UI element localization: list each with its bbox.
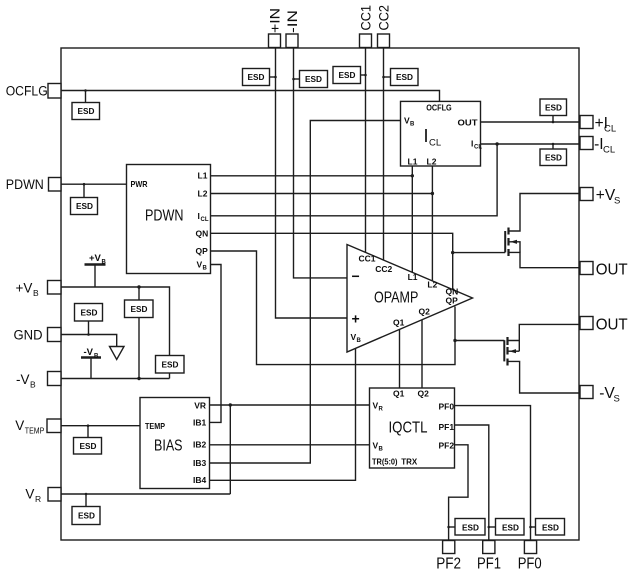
wire upper MOSFET body tie (509, 242, 521, 253)
wire +VB rail lower stub to ESD (169, 373, 171, 379)
junction QN gate (451, 251, 454, 254)
svg-text:CC1: CC1 (359, 253, 376, 263)
wire opamp VB net to BIAS IB4 (210, 348, 356, 480)
svg-text:Q2: Q2 (418, 388, 430, 398)
pin +ICL (580, 116, 593, 129)
pin OCFLG (48, 84, 61, 99)
svg-text:V: V (25, 487, 34, 502)
svg-text:-V: -V (16, 372, 30, 387)
ESD cell on PF1 (488, 519, 525, 536)
svg-text:IQCTL: IQCTL (389, 420, 428, 437)
wire -VB supply stem (90, 358, 92, 379)
wire IB2 net: BIAS IB2 to IQCTL VB (210, 444, 370, 446)
svg-text:PF2: PF2 (436, 556, 461, 573)
svg-text:TRX: TRX (401, 456, 417, 466)
wire ICL net: PDWN ICL to ICL block output (211, 144, 498, 216)
outer border frame of IC (61, 48, 579, 540)
svg-text:L1: L1 (408, 272, 418, 282)
wire PDWN VB net to BIAS IB1 (210, 265, 222, 423)
ESD cell on +IN (243, 69, 277, 86)
svg-text:ESD: ESD (131, 304, 148, 314)
wire ICL OUT to +ICL pin (481, 121, 581, 123)
wire L2 vertical: ICL block to opamp (431, 166, 433, 280)
svg-text:+V: +V (16, 281, 33, 296)
supply symbol -VB bar (81, 356, 101, 359)
svg-text:B: B (410, 122, 415, 128)
pin -ICL (580, 137, 593, 150)
svg-text:ESD: ESD (545, 103, 562, 113)
wire PF2 net: IQCTL to PF2 pin (449, 445, 468, 541)
transistor lower output MOSFET channel dashes (506, 337, 508, 366)
svg-text:+V: +V (596, 187, 616, 204)
svg-text:OUT: OUT (596, 262, 629, 279)
pin -VS (580, 386, 593, 399)
wire OCFLG net: from pin to ICL block top (61, 91, 440, 102)
svg-text:+V: +V (89, 253, 102, 264)
svg-text:VR: VR (194, 400, 206, 410)
transistor upper output MOSFET gate bar (504, 231, 506, 252)
wire +VB supply stem (94, 265, 96, 288)
ESD cell on +ICL (540, 99, 567, 123)
ESD cell between +VB and GND (75, 304, 103, 336)
transistor lower output MOSFET gate bar (503, 340, 505, 361)
svg-text:ESD: ESD (542, 523, 559, 533)
junction L2 (431, 192, 434, 195)
svg-text:Q1: Q1 (393, 318, 405, 328)
ESD cell on PF0 (529, 519, 564, 536)
svg-text:TR(5:0): TR(5:0) (372, 456, 398, 466)
svg-text:OUT: OUT (596, 317, 629, 334)
wire -VB rail (61, 378, 170, 380)
pin -IN (286, 34, 298, 48)
svg-text:B: B (33, 288, 39, 298)
ESD cell on -IN (292, 71, 327, 88)
ESD cell on PDWN (71, 183, 98, 215)
svg-text:ESD: ESD (248, 72, 265, 82)
svg-text:L2: L2 (427, 157, 437, 167)
svg-text:IB1: IB1 (193, 417, 207, 427)
pin VR (48, 488, 61, 502)
wire PF1 net: IQCTL to PF1 pin (455, 425, 489, 541)
wire CC1 net: down from pin to opamp CC1 (365, 48, 367, 253)
wire TEMP net: pin to BIAS block (61, 425, 140, 427)
svg-text:QP: QP (446, 296, 459, 306)
svg-text:ESD: ESD (78, 511, 95, 521)
svg-text:PF1: PF1 (439, 422, 455, 432)
svg-text:Q1: Q1 (393, 388, 405, 398)
pin -VB (48, 372, 62, 386)
svg-text:PF2: PF2 (439, 440, 455, 450)
ESD cell on CC2 (382, 69, 418, 86)
ESD cell on VTEMP (74, 424, 102, 454)
svg-text:QN: QN (196, 229, 209, 239)
ESD cell on OCFLG (72, 89, 100, 119)
svg-text:OCFLG: OCFLG (6, 84, 48, 99)
svg-text:CC2: CC2 (375, 264, 392, 274)
svg-text:L2: L2 (427, 279, 437, 289)
svg-text:OUT: OUT (458, 118, 479, 128)
svg-text:TEMP: TEMP (145, 421, 165, 431)
pin VTEMP (47, 419, 61, 433)
wire PWR net: PDWN pin to PDWN block (61, 183, 127, 185)
pin CC1 (360, 34, 372, 48)
wire L2 net: PDWN L2 to ICL/opamp L2 vertical (211, 193, 433, 195)
wire L1 vertical: ICL block to opamp (411, 166, 413, 273)
svg-text:PDWN: PDWN (145, 208, 184, 225)
pin +IN (269, 34, 281, 48)
junction L1 (411, 174, 414, 177)
wire ICL block VB net down to BIAS IB3 (210, 121, 401, 464)
svg-text:IB4: IB4 (193, 475, 207, 485)
svg-text:ESD: ESD (76, 201, 93, 211)
wire ICL output to -ICL pin (481, 143, 581, 145)
svg-text:PDWN: PDWN (6, 177, 44, 192)
svg-text:CL: CL (603, 145, 615, 156)
pin +VB (48, 281, 62, 295)
svg-text:PF0: PF0 (518, 556, 542, 573)
pin +VS (580, 188, 593, 201)
wire Q2: opamp to IQCTL (421, 320, 423, 388)
svg-text:IB3: IB3 (193, 458, 207, 468)
svg-text:CL: CL (474, 145, 482, 151)
wire VR pin lead (61, 493, 230, 495)
svg-text:R: R (379, 407, 384, 413)
block BIAS (140, 398, 210, 489)
svg-text:I: I (424, 126, 429, 146)
wire upper MOSFET source to OUT (509, 252, 581, 267)
svg-text:OCFLG: OCFLG (426, 103, 452, 113)
ESD cell on PF2 (447, 519, 485, 536)
wire QN net: PDWN QN to opamp QN (211, 233, 453, 289)
transistor upper output MOSFET channel dashes (507, 228, 509, 257)
ESD cell between +VB and -VB (middle) (125, 285, 154, 380)
ESD cell on VR (72, 493, 100, 525)
wire PF0 net: IQCTL to PF0 pin (455, 406, 531, 541)
svg-text:B: B (203, 266, 208, 272)
ESD cell on CC1 (333, 67, 367, 84)
svg-text:R: R (35, 494, 41, 504)
pin PF1 (483, 541, 495, 554)
pin GND (48, 328, 62, 342)
op-amp OPAMP (347, 245, 473, 353)
wire +VB rail (61, 287, 170, 356)
svg-text:ESD: ESD (545, 153, 562, 163)
wire +IN net: down from pin to noninverting input (276, 48, 348, 319)
svg-text:ESD: ESD (462, 523, 479, 533)
wire VR net: BIAS VR to IQCTL, branch to VR pin (210, 404, 370, 406)
wire QN gate branch to upper transistor (453, 252, 506, 254)
wire QP net: PDWN QP to opamp QP (211, 251, 456, 365)
supply symbol +VB bar (85, 263, 106, 266)
wire QP gate branch to lower transistor (455, 340, 504, 342)
wire upper MOSFET drain to +VS rail (509, 194, 581, 232)
svg-text:+IN: +IN (268, 8, 283, 33)
junction VR (229, 403, 232, 406)
pin OUT (lower) (580, 317, 593, 330)
svg-text:GND: GND (14, 328, 43, 343)
svg-text:−: − (352, 268, 360, 284)
svg-text:ESD: ESD (81, 308, 98, 318)
svg-text:QP: QP (196, 246, 209, 256)
pin CC2 (378, 34, 390, 48)
svg-text:B: B (102, 260, 107, 266)
svg-text:L1: L1 (408, 157, 418, 167)
pin PF0 (524, 541, 536, 554)
svg-text:-V: -V (84, 347, 94, 358)
arrow upper MOSFET body (points to channel) (510, 240, 517, 244)
svg-text:PF0: PF0 (439, 401, 455, 411)
svg-text:BIAS: BIAS (154, 438, 183, 455)
svg-text:TEMP: TEMP (25, 426, 45, 436)
svg-text:IB2: IB2 (193, 440, 207, 450)
wire L1 net: PDWN L1 to ICL/opamp L1 vertical (211, 175, 413, 177)
svg-text:B: B (30, 380, 36, 390)
ESD cell between +VB and -VB (right) (156, 356, 185, 374)
svg-text:L2: L2 (198, 189, 208, 199)
wire CC2 net: down from pin to opamp CC2 (383, 48, 385, 261)
wire -IN net: down from pin to inverting input (294, 48, 348, 278)
svg-text:B: B (94, 354, 99, 360)
svg-text:ESD: ESD (78, 106, 95, 116)
svg-text:B: B (357, 338, 362, 344)
svg-text:CL: CL (201, 217, 209, 223)
svg-text:PF1: PF1 (477, 556, 501, 573)
svg-text:L1: L1 (198, 171, 208, 181)
junction ICL output (495, 142, 498, 145)
svg-text:B: B (379, 446, 384, 452)
pin PDWN (49, 178, 62, 192)
wire Q1: opamp to IQCTL (399, 329, 401, 388)
wire lower MOSFET body tie (508, 350, 520, 352)
svg-text:CC1: CC1 (359, 5, 374, 31)
svg-text:ESD: ESD (502, 523, 519, 533)
svg-text:-IN: -IN (285, 10, 300, 33)
block PDWN (127, 165, 211, 274)
svg-text:ESD: ESD (80, 441, 97, 451)
wire lower MOSFET drain to OUT (508, 324, 581, 351)
block ICL current limit (401, 101, 483, 166)
pin PF2 (443, 541, 455, 554)
svg-text:ESD: ESD (339, 70, 356, 80)
ground symbol (open triangle) (110, 347, 125, 360)
svg-text:OPAMP: OPAMP (374, 290, 418, 307)
block IQCTL (370, 388, 455, 468)
svg-text:ESD: ESD (305, 74, 322, 84)
junction QP gate (453, 339, 456, 342)
svg-text:CC2: CC2 (377, 5, 392, 31)
pin OUT (upper) (580, 262, 593, 275)
svg-text:V: V (15, 418, 24, 433)
ESD cell on -ICL (540, 143, 567, 166)
wire GND net to ground symbol (61, 335, 117, 347)
svg-text:+: + (352, 311, 360, 327)
svg-text:PWR: PWR (131, 179, 148, 189)
svg-text:ESD: ESD (396, 72, 413, 82)
svg-text:Q2: Q2 (419, 306, 431, 316)
wire VR branch down to VR pin lead (229, 405, 231, 494)
svg-text:S: S (614, 196, 620, 207)
svg-text:ESD: ESD (162, 360, 179, 370)
svg-text:S: S (614, 394, 620, 405)
svg-text:CL: CL (429, 138, 441, 149)
svg-text:CL: CL (604, 124, 616, 135)
arrow lower MOSFET body (points to channel) (509, 349, 516, 353)
wire lower MOSFET source to -VS (508, 361, 581, 393)
